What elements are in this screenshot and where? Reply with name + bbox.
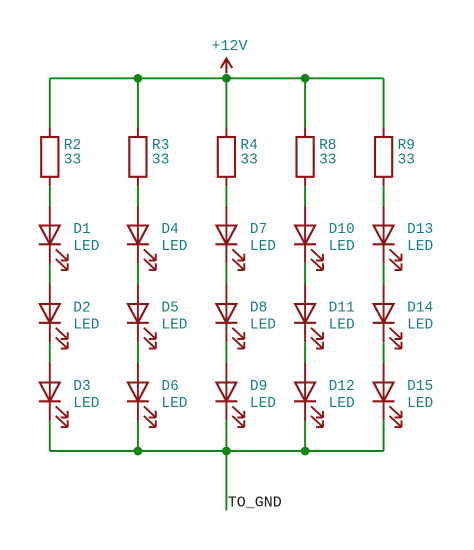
svg-text:LED: LED <box>407 396 433 412</box>
wire D11 to D12 <box>304 342 306 363</box>
wire rail to R2 <box>49 78 51 127</box>
LED D8 <box>215 285 244 349</box>
junction bottom rail / D12 column <box>301 447 310 456</box>
LED D5 <box>127 285 156 349</box>
junction bottom rail / TO_GND wire <box>222 447 231 456</box>
junction top rail / R8 column <box>301 74 310 83</box>
LED D15 <box>373 363 402 427</box>
svg-text:LED: LED <box>161 396 187 412</box>
label R9 value 33 <box>398 138 415 168</box>
svg-text:LED: LED <box>329 396 355 412</box>
svg-text:LED: LED <box>329 239 355 255</box>
label D15 LED <box>407 379 433 412</box>
svg-text:D8: D8 <box>250 300 267 316</box>
LED D4 <box>127 206 156 270</box>
LED D3 <box>39 363 68 427</box>
label R2 value 33 <box>64 138 81 168</box>
LED D13 <box>373 206 402 270</box>
wire D10 to D11 <box>304 264 306 285</box>
LED D11 <box>294 285 323 349</box>
label D10 LED <box>329 222 355 255</box>
label R4 value 33 <box>240 138 257 168</box>
label D9 LED <box>250 379 276 412</box>
wire to TO_GND label <box>225 451 227 511</box>
svg-text:LED: LED <box>407 318 433 334</box>
svg-text:LED: LED <box>250 318 276 334</box>
LED D1 <box>39 206 68 270</box>
resistor R2 33 <box>41 128 58 187</box>
svg-text:LED: LED <box>250 396 276 412</box>
svg-text:LED: LED <box>329 318 355 334</box>
wire R8 to D10 <box>304 186 306 206</box>
svg-text:LED: LED <box>161 318 187 334</box>
svg-text:D2: D2 <box>73 300 90 316</box>
wire D7 to D8 <box>225 264 227 285</box>
svg-text:D1: D1 <box>73 222 90 238</box>
net name +12V <box>212 38 248 55</box>
label D13 LED <box>407 222 433 255</box>
LED D14 <box>373 285 402 349</box>
resistor R4 33 <box>218 128 235 187</box>
wire D9 to bottom rail <box>225 421 227 451</box>
label D6 LED <box>161 379 187 412</box>
junction bottom rail / D6 column <box>134 447 143 456</box>
wire D1 to D2 <box>49 264 51 285</box>
wire rail to R4 <box>225 78 227 127</box>
svg-text:33: 33 <box>152 153 169 169</box>
label D2 LED <box>73 300 99 333</box>
label D5 LED <box>161 300 187 333</box>
wire R9 to D13 <box>383 186 385 206</box>
LED D12 <box>294 363 323 427</box>
wire D3 to bottom rail <box>49 421 51 451</box>
wire D14 to D15 <box>383 342 385 363</box>
wire rail to R3 <box>137 78 139 127</box>
svg-text:33: 33 <box>64 153 81 169</box>
label R8 value 33 <box>319 138 336 168</box>
wire rail to R9 <box>383 78 385 127</box>
wire rail to R8 <box>304 78 306 127</box>
wire R4 to D7 <box>225 186 227 206</box>
label R3 value 33 <box>152 138 169 168</box>
net label TO_GND <box>228 495 282 512</box>
wire D15 to bottom rail <box>383 421 385 451</box>
svg-text:D10: D10 <box>329 222 355 238</box>
svg-text:D12: D12 <box>329 379 355 395</box>
label D14 LED <box>407 300 433 333</box>
label D1 LED <box>73 222 99 255</box>
svg-text:D13: D13 <box>407 222 433 238</box>
label D8 LED <box>250 300 276 333</box>
wire top +12V rail <box>50 77 384 79</box>
svg-text:LED: LED <box>250 239 276 255</box>
svg-text:+12V: +12V <box>212 38 248 55</box>
label D3 LED <box>73 379 99 412</box>
svg-text:D11: D11 <box>329 300 355 316</box>
svg-text:D7: D7 <box>250 222 267 238</box>
resistor R8 33 <box>297 128 314 187</box>
wire D12 to bottom rail <box>304 421 306 451</box>
label D7 LED <box>250 222 276 255</box>
power symbol +12V (PWR01) <box>221 59 232 74</box>
LED D7 <box>215 206 244 270</box>
svg-text:LED: LED <box>407 239 433 255</box>
LED D9 <box>215 363 244 427</box>
LED D6 <box>127 363 156 427</box>
resistor R3 33 <box>129 128 146 187</box>
wire R3 to D4 <box>137 186 139 206</box>
wire R2 to D1 <box>49 186 51 206</box>
wire bottom GND rail <box>50 450 384 452</box>
svg-text:TO_GND: TO_GND <box>228 495 282 512</box>
LED D10 <box>294 206 323 270</box>
svg-text:D3: D3 <box>73 379 90 395</box>
svg-text:D6: D6 <box>161 379 178 395</box>
svg-text:33: 33 <box>319 153 336 169</box>
svg-text:D4: D4 <box>161 222 178 238</box>
svg-text:33: 33 <box>240 153 257 169</box>
svg-text:D15: D15 <box>407 379 433 395</box>
wire D5 to D6 <box>137 342 139 363</box>
wire D13 to D14 <box>383 264 385 285</box>
wire D2 to D3 <box>49 342 51 363</box>
svg-text:LED: LED <box>73 318 99 334</box>
svg-text:LED: LED <box>73 396 99 412</box>
svg-text:33: 33 <box>398 153 415 169</box>
LED D2 <box>39 285 68 349</box>
wire D6 to bottom rail <box>137 421 139 451</box>
svg-text:D14: D14 <box>407 300 433 316</box>
junction top rail / +12V / R4 column <box>222 74 231 83</box>
svg-text:D9: D9 <box>250 379 267 395</box>
svg-text:LED: LED <box>73 239 99 255</box>
resistor R9 33 <box>375 128 392 187</box>
label D4 LED <box>161 222 187 255</box>
wire D8 to D9 <box>225 342 227 363</box>
svg-text:D5: D5 <box>161 300 178 316</box>
label D12 LED <box>329 379 355 412</box>
svg-text:LED: LED <box>161 239 187 255</box>
wire D4 to D5 <box>137 264 139 285</box>
junction top rail / R3 column <box>134 74 143 83</box>
label D11 LED <box>329 300 355 333</box>
